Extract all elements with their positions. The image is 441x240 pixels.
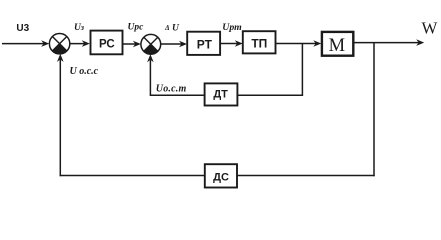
wire DS to S1 with up arrow: [57, 54, 205, 176]
wire input to summing junction 1: [2, 40, 49, 47]
block DS (speed sensor ДС): [205, 164, 237, 187]
wire TP to M: [276, 40, 321, 47]
wire M to W output: [354, 39, 425, 46]
block TP (thyristor converter ТП): [243, 31, 276, 53]
summing junction S1: [49, 34, 69, 54]
svg-text:Uо.с.т: Uо.с.т: [156, 84, 187, 95]
svg-text:М: М: [329, 36, 345, 56]
svg-text:W: W: [422, 19, 438, 38]
svg-text:Uрт: Uрт: [222, 22, 242, 33]
wire PT to TP: [221, 40, 243, 47]
block PC (speed regulator РС): [91, 31, 123, 55]
wire branch down from output (speed feedback): [237, 43, 375, 177]
block M (motor): [322, 32, 353, 56]
summing junction S2: [141, 34, 161, 54]
svg-text:Uрс: Uрс: [128, 22, 145, 32]
wire tap down to DT (current feedback): [237, 44, 303, 96]
wire S2 to PT: [161, 41, 187, 48]
svg-text:ДС: ДС: [213, 171, 229, 183]
wire PC to summing junction 2: [123, 41, 141, 48]
svg-text:Uз: Uз: [74, 23, 84, 33]
svg-text:ТП: ТП: [251, 37, 267, 51]
svg-text:U3: U3: [16, 23, 29, 34]
svg-text:ДТ: ДТ: [213, 89, 228, 101]
block DT (current sensor ДТ): [205, 83, 238, 105]
svg-text:РС: РС: [99, 38, 115, 50]
wire S1 to PC: [70, 40, 90, 47]
svg-text:U о.с.с: U о.с.с: [70, 66, 99, 77]
wire DT to S2 with up arrow: [147, 54, 205, 96]
svg-text:РТ: РТ: [197, 37, 213, 51]
svg-text:Δ U: Δ U: [164, 23, 180, 33]
block PT (current regulator РТ): [187, 32, 220, 55]
